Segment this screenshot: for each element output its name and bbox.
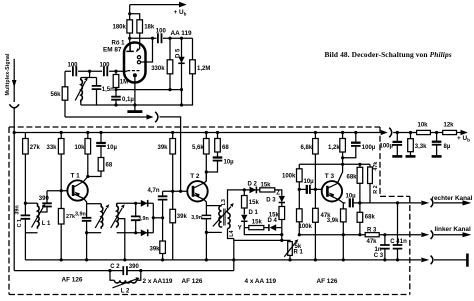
svg-text:33k: 33k [47,145,58,151]
svg-text:C 1: C 1 [17,219,23,227]
inductor L3 primary [219,206,222,228]
svg-text:L4: L4 [229,231,235,237]
ground rail B [14,270,234,272]
diode D5 [181,38,183,105]
T3 base bar [326,186,329,197]
diode D3 [281,194,283,197]
tank3 bottom wire [117,232,136,234]
resistor 1.2M [192,38,194,105]
node rail A crossover [232,258,235,261]
tube cathode dot [133,73,137,77]
wire linker Kanal arrow [434,234,463,236]
svg-text:R 3: R 3 [367,227,377,233]
svg-text:2 x AA119: 2 x AA119 [143,278,173,285]
T3 collector [327,183,338,188]
tank1 top wire [25,202,37,204]
svg-text:AF 126: AF 126 [182,278,203,285]
svg-text:330k: 330k [151,66,165,72]
svg-text:T 2: T 2 [190,173,200,180]
svg-text:4 x AA 119: 4 x AA 119 [245,278,277,285]
svg-text:27k: 27k [66,214,75,220]
node row2/Zcol [280,233,283,236]
wire L4 top to diode bridge [228,190,245,213]
resistor 1M [115,71,117,89]
inductor L1 variable [38,203,40,229]
resistor 27k (input) [24,133,26,204]
svg-text:5,6k: 5,6k [192,145,204,151]
node 3,3k supply [409,131,412,134]
capacitor C3 1n [384,235,386,260]
svg-text:15k: 15k [261,183,272,189]
node row3/Zcol [280,239,283,242]
node screen W0 [151,37,154,40]
node 8u [435,131,438,134]
wire W1 (1M to 330k/D5 bottoms) [116,89,182,91]
node rail 68 [216,131,219,134]
node rail A 47k [314,258,317,261]
capacitor C2 390 [123,266,127,275]
wire 56k bottom to connector [65,116,149,118]
capacitor 1,5n [96,78,98,106]
resistor 39k (lower bias T2) [172,191,174,260]
arrow L2 [113,279,137,288]
node base signal [179,190,182,193]
resistor 18k [137,20,143,33]
svg-text:3,3k: 3,3k [415,144,427,150]
node rail A 39k [161,258,164,261]
diode D4 [268,224,270,231]
inductor tank2 variable [101,204,103,229]
svg-text:4,7n: 4,7n [148,188,160,194]
wire T3 emitter node [338,199,345,203]
resistor 1,2k [337,133,342,184]
svg-text:C 4: C 4 [390,239,400,245]
wire input into box [13,109,15,271]
capacitor 4,7n [162,191,164,218]
node grid 1M [114,70,117,73]
svg-text:3,9n: 3,9n [75,211,86,217]
node T3 base divider [298,188,301,191]
svg-text:68k: 68k [347,174,358,180]
ground rail A [25,259,421,261]
node collector 100u [341,156,344,159]
wire L4 bottom [228,229,234,239]
bias rail y132.5 [14,132,381,134]
capacitor 8u [436,133,438,156]
capacitor 10u (T2 collector) [206,152,217,181]
svg-text:39k: 39k [150,246,161,252]
node tank top [88,70,91,73]
node 4,7n bottom [161,216,164,219]
wire connector to decoder box [160,117,181,191]
node rail 6,8k [314,131,317,134]
inductor L2 [110,271,141,281]
svg-text:R 1: R 1 [294,250,304,256]
resistor 330k [169,38,171,89]
T2 emitter with arrow [193,194,204,199]
node W1-D5 [180,88,183,91]
capacitor C1 39n [24,203,26,233]
node anode/coupling [128,37,131,40]
node rail A C3 [383,258,386,261]
svg-text:100: 100 [68,62,79,68]
node 0,1u bottom [114,103,117,106]
svg-text:Multiplex-Signal: Multiplex-Signal [5,53,11,96]
node R3 row 100k [298,233,301,236]
svg-text:390: 390 [39,196,50,202]
arrow tank2 inductor [95,208,107,228]
node base 6,8k [314,188,317,191]
svg-text:D 2: D 2 [248,182,258,188]
svg-text:1n: 1n [375,247,382,253]
svg-text:3,9n: 3,9n [191,215,202,221]
diode doubler bottom (AA119) [136,232,154,234]
diode D1 [241,215,247,221]
wire T1 emitter down [84,199,87,204]
svg-text:39k: 39k [177,214,188,220]
svg-text:0,1µ: 0,1µ [122,97,134,103]
node emitter out 68k [358,201,361,204]
node supply split [128,12,131,15]
tube grid electrodes circles [137,56,140,59]
wire T1 base [47,190,67,192]
wire L4 return column [233,239,235,271]
tank2 bottom wire [87,232,102,234]
resistor 39k (upper bias T2) [172,133,174,192]
svg-text:100: 100 [100,62,111,68]
node rail A T2 emitter [205,258,208,261]
svg-text:100µ: 100µ [362,145,376,151]
wire Z corner [275,190,282,195]
svg-text:47k: 47k [367,239,378,245]
svg-text:15k: 15k [252,220,263,226]
node rechter C4 [396,201,399,204]
capacitor 3,9n (T2 emitter) [202,216,212,219]
svg-text:linker Kanal: linker Kanal [435,226,471,233]
wire tank2 to rail A [86,233,88,260]
resistor 68k lower [359,203,361,235]
resistor 100k upper [298,164,300,209]
svg-text:12k: 12k [444,122,455,128]
node rail B L2 left [108,269,111,272]
capacitor 10u (T3 out) [349,198,351,207]
resistor 3,9k [342,203,344,260]
resistor 180k [127,20,133,33]
node 330k top [168,37,171,40]
capacitor 0,1u [115,90,117,105]
resistor 10k horizontal [417,130,431,134]
svg-text:L 2: L 2 [121,288,130,294]
ground bar 3,3k [406,155,416,158]
T2 collector [193,183,204,188]
svg-text:68: 68 [106,163,113,169]
arrow R1 [284,242,295,257]
svg-text:39n: 39n [14,205,20,214]
svg-text:10µ: 10µ [346,193,357,199]
svg-text:L3: L3 [221,199,227,205]
svg-text:3,9n: 3,9n [138,216,149,222]
svg-text:AF 126: AF 126 [62,276,83,283]
node D5 W2 [180,103,183,106]
T2 base bar [192,186,195,197]
inductor tank3 tapped coil [117,203,119,228]
resistor 68 [98,158,104,172]
input lead Multiplex-Signal [13,59,15,80]
resistor 68k upper [359,164,361,203]
wire 38kHz to 4,7n column [153,217,162,219]
node rail 5,6k [205,131,208,134]
svg-text:6,8k: 6,8k [301,145,313,151]
wire 10k to 12k [430,132,442,134]
tank2 top wire [87,203,102,205]
wire 18k into tube [139,33,141,46]
node L3 bottom [205,231,208,234]
wire diode cathode column [152,203,154,233]
node rail 10k [86,131,89,134]
svg-text:D 5: D 5 [176,48,182,58]
chassis bar output [466,254,469,267]
node base 39k divider [171,190,174,193]
wire supply filter [393,132,416,134]
node tank1 top [24,202,27,205]
resistor 47k (T3 base lower) [314,189,316,260]
resistor R2 47k [369,164,371,203]
node R3 row 3,9k [342,233,345,236]
svg-text:Z: Z [276,191,280,197]
wire L3 bottom [206,231,221,233]
resistor 15k horizontal (Y) [249,226,264,230]
tank3 top wire [117,202,136,204]
capacitor 100u (inside box) [343,133,356,158]
node bus 68k [358,163,361,166]
node rail A 27k [60,258,63,261]
+Ub top arrow [179,2,187,8]
wire collector to junction [84,177,88,182]
node input-rail [13,131,16,134]
svg-text:10µ: 10µ [224,159,235,165]
tank1 bottom wire [25,233,37,260]
capacitor 3,9n tank3 [135,203,137,233]
svg-text:3,9k: 3,9k [327,218,339,224]
wire bias bus y164.3 [299,163,370,165]
wire row to R1 [234,240,290,241]
node 38kHz out [152,216,155,219]
resistor 27k (T1 base lower) [60,191,62,260]
node rail 39k [171,131,174,134]
svg-text:390: 390 [129,264,140,270]
resistor 68 (T2) [217,133,219,139]
wire R1 to rail A [289,255,291,260]
svg-text:C 3: C 3 [374,253,384,259]
node R3 row 68k [358,233,361,236]
diode doubler top (AA119) [136,202,154,204]
svg-text:1,2M: 1,2M [197,66,210,72]
svg-text:EM 87: EM 87 [103,46,122,53]
svg-text:1M: 1M [120,80,128,86]
svg-text:18k: 18k [144,24,155,30]
node cathode W2 [133,103,136,106]
resistor 3,3k [410,133,412,156]
node linker C3 [383,233,386,236]
node tank2 bottom [85,231,88,234]
tube anode plate electrode [126,44,133,51]
svg-text:1,2k: 1,2k [328,145,340,151]
+Ub exit arrow [381,130,388,135]
diode D2 [244,189,259,191]
wire L3 top [206,205,221,207]
svg-text:R 2: R 2 [373,185,379,193]
node base 33k/27k [60,189,63,192]
wire Y to row2 [244,228,281,235]
svg-text:39k: 39k [158,145,169,151]
capacitor 100u (supply) [396,133,398,156]
svg-text:47k: 47k [373,162,379,171]
svg-text:AA 119: AA 119 [171,30,193,37]
T1 collector [73,181,84,188]
svg-text:100k: 100k [299,224,313,230]
resistor 5,6k [204,133,206,184]
transistor T3 circle [322,181,342,201]
svg-text:Bild 48. Decoder-Schaltung von: Bild 48. Decoder-Schaltung von Philips [325,50,452,59]
svg-text:100k: 100k [282,173,296,179]
svg-text:100µ: 100µ [380,143,394,149]
capacitor C4 1n [397,203,399,260]
node tank3 top diode [134,202,137,205]
+Ub exit arc [389,128,392,138]
svg-text:15k: 15k [269,212,280,218]
svg-text:rechter Kanal: rechter Kanal [432,195,473,202]
svg-text:Y: Y [238,225,242,231]
capacitor 100 (top coupling) [158,33,162,43]
node bus collector [341,163,344,166]
wire T2 base [163,190,188,192]
wire coil tap [119,219,125,260]
wire +Ub right arrow [457,132,462,134]
resistor 100k lower [297,209,303,222]
wire ground output [434,259,467,261]
resistor 10k [87,133,89,177]
svg-text:AF 126: AF 126 [317,278,338,285]
node D2 anode [243,188,246,191]
connector rechter Kanal plug [421,201,429,206]
decoder box dashed outline [9,127,410,295]
capacitor 100 (right) [104,66,107,76]
inductor L4 secondary [228,213,231,229]
transistor T1 circle [67,180,87,200]
svg-text:100: 100 [156,29,167,35]
wire tank drop [89,71,91,77]
svg-text:8µ: 8µ [444,144,451,150]
resistor 56k [64,71,66,117]
svg-text:10µ: 10µ [107,145,118,151]
node tank3 bottom diode [134,231,137,234]
T1 emitter with arrow [73,194,84,199]
node rail A emitter1 [85,258,88,261]
capacitor 390 (base coupling) [40,191,47,212]
wire tank top bar [81,77,97,79]
svg-text:68k: 68k [365,215,376,221]
resistor 6,8k [314,133,316,190]
svg-text:T 1: T 1 [71,173,81,180]
svg-text:D 3: D 3 [266,197,276,203]
wire cathode down [134,77,136,111]
wire +Ub top rail [130,4,180,6]
wire tank bottom [80,101,82,106]
svg-text:180k: 180k [113,24,127,30]
svg-text:L 1: L 1 [42,221,51,227]
connector arrow (19kHz link) [147,114,154,119]
resistor 15k horizontal (D2) [260,188,275,192]
svg-text:1,5n: 1,5n [102,87,114,93]
tube Ro1 EM87 envelope [124,43,146,83]
svg-text:10k: 10k [75,145,86,151]
resistor 15k vertical (left) [243,190,245,215]
node collector T2 [205,170,208,173]
inductor 19k variable coil [81,78,83,103]
arrow tank3 inductor [111,208,123,228]
ground bar 100u [392,155,402,158]
capacitor 10u electrolytic [100,133,102,158]
capacitor 10u (T3 base) [299,188,321,190]
svg-text:68: 68 [222,145,229,151]
wire W2 detector return [81,104,193,105]
node 100u supply [396,131,399,134]
T3 emitter with arrow [327,194,338,199]
node rail A R1 [288,258,291,261]
wire R3 row [299,234,421,236]
connector ground output plug [421,258,429,263]
ground bar 8u [432,155,442,158]
svg-text:1n: 1n [400,239,407,245]
node rail B L2 right [139,269,142,272]
resistor 33k [60,133,62,191]
capacitor 100 (left) [73,66,76,76]
tube control grid dashed [127,70,140,72]
ground chassis bar (tube cathode) [127,110,142,113]
node rail 10u [99,131,102,134]
node D5 top [180,37,183,40]
T1 base bar [72,185,75,196]
svg-text:15k: 15k [249,200,260,206]
input connector arc [9,104,19,108]
svg-text:C 2: C 2 [110,264,120,270]
potentiometer R1 5k box [288,242,293,256]
svg-text:56k: 56k [51,92,62,98]
wire supply drop to resistors [130,5,140,20]
svg-text:10µ: 10µ [304,179,315,185]
wire screen out to W0 [141,38,153,62]
node 330k bottom [168,88,171,91]
arrow L1 [32,208,44,228]
node collector junction [86,175,89,178]
input arrowhead [12,80,17,88]
resistor R3 47k horizontal [365,233,379,237]
wire 180k to tube anode [129,33,131,45]
node rail 100u [354,131,357,134]
svg-text:10k: 10k [418,122,429,128]
wire grid row y71 [65,70,127,72]
wire T2 emitter down [204,199,207,260]
resistor 15k vertical (Z) [281,203,283,241]
node rail 33k [60,131,63,134]
wire rechter Kanal arrow [434,202,463,204]
connector linker Kanal plug [421,232,429,237]
node 1M bottom W1 [114,88,117,91]
node rail 1,2k [341,131,344,134]
capacitor 3,9n (emitter) [86,204,88,233]
arrow of variable inductor [75,81,85,101]
transistor T2 circle [187,181,207,201]
